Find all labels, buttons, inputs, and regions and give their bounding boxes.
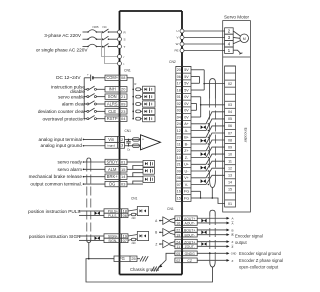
svg-text:FG: FG <box>184 190 189 194</box>
svg-text:01: 01 <box>121 159 125 164</box>
wire tap to terminal r <box>102 32 120 57</box>
svg-text:Servo Motor: Servo Motor <box>224 15 249 20</box>
resistor 220 <box>131 213 136 216</box>
terminal W <box>180 42 184 46</box>
wire AC phase T lead <box>83 46 89 48</box>
optocoupler pulse input <box>137 207 148 216</box>
wire COM+ feed <box>127 78 133 119</box>
wire PULS+ lead <box>79 210 94 212</box>
terminal U <box>180 29 184 33</box>
encoder pin row 4 <box>225 86 236 88</box>
twist crossover <box>95 236 98 240</box>
contactor NC pole S <box>103 36 109 40</box>
svg-text:12: 12 <box>228 167 232 171</box>
wire ingnd to amp <box>125 145 141 147</box>
switch input contact <box>84 110 87 112</box>
connector pin pin ingnd 13 <box>105 142 125 148</box>
svg-text:Z: Z <box>232 259 234 263</box>
svg-text:0V: 0V <box>184 95 189 99</box>
wire motor pin 3 to motor <box>233 36 240 39</box>
connector encoder pin column <box>225 66 236 207</box>
switch input contact <box>84 88 87 90</box>
svg-text:11: 11 <box>176 245 180 249</box>
svg-text:A: A <box>232 222 234 226</box>
motor M1 <box>240 34 249 43</box>
svg-text:CN1: CN1 <box>125 129 132 133</box>
wire encoder output row Z <box>197 259 226 261</box>
wire FG to shield bottom <box>86 259 213 282</box>
svg-text:PE: PE <box>174 49 178 53</box>
connector pin pin FG 25 <box>114 256 137 262</box>
svg-text:V: V <box>176 36 178 40</box>
CN2 pin 22 Z+ <box>176 146 191 148</box>
servo motor enclosure <box>223 21 251 212</box>
svg-text:output: output <box>235 240 247 245</box>
svg-text:10: 10 <box>228 152 232 156</box>
CN2 pin 03 0V <box>176 106 191 108</box>
encoder pin row 10 07 <box>225 128 236 130</box>
wire AC phase S lead <box>83 38 89 40</box>
wire encoder shield drain <box>211 188 213 199</box>
svg-text:220: 220 <box>132 217 137 220</box>
svg-text:COM+: COM+ <box>106 75 119 80</box>
CN2 pin 08 V+ <box>176 173 191 175</box>
CN2 pin 06 5V <box>176 72 191 74</box>
svg-text:04: 04 <box>177 115 181 119</box>
optocoupler input <box>143 108 155 114</box>
connector pin pin SON 21 <box>105 94 127 99</box>
wire NC to terminal S <box>109 38 120 40</box>
svg-text:10: 10 <box>177 156 181 160</box>
wire analog ground <box>83 145 85 147</box>
wire pair CN2 A+/A- to encoder <box>191 112 225 124</box>
svg-text:04: 04 <box>228 110 232 114</box>
svg-text:24: 24 <box>177 122 181 126</box>
connector pin pin COM+ 08 <box>105 75 127 80</box>
svg-text:13: 13 <box>119 143 123 148</box>
encoder pin row 5 <box>225 93 236 95</box>
svg-text:V+: V+ <box>184 176 189 180</box>
wire NC to terminal R <box>109 31 120 33</box>
svg-text:06: 06 <box>177 75 181 79</box>
pin 05 GNDG <box>175 251 197 256</box>
svg-text:PULS+: PULS+ <box>108 209 118 213</box>
encoder pin row 16 13 <box>225 171 236 173</box>
encoder pin row 15 12 <box>225 164 236 166</box>
encoder pin row 19 <box>225 192 236 194</box>
wire GND to chassis <box>160 253 175 266</box>
svg-text:23: 23 <box>177 136 181 140</box>
switch input contact <box>84 96 87 98</box>
svg-text:5V: 5V <box>184 88 189 92</box>
wire pair CN2 V+/V- to encoder <box>191 168 225 178</box>
resistor 220 <box>131 238 136 241</box>
wire PULS- lead <box>79 214 94 216</box>
wire output to optocoupler <box>127 168 143 170</box>
svg-text:ALRS: ALRS <box>107 101 118 106</box>
svg-text:disable: disable <box>70 89 85 94</box>
svg-text:FG: FG <box>119 256 125 261</box>
svg-text:3-phase AC 220V: 3-phase AC 220V <box>44 33 82 38</box>
svg-text:servo ready: servo ready <box>58 160 83 165</box>
connector pin pin ALM 15 <box>105 167 127 172</box>
svg-text:U: U <box>176 29 178 33</box>
wire 5V collector <box>191 69 204 71</box>
connector CN2 table <box>176 66 191 201</box>
wire encoder output row Z <box>197 245 226 247</box>
svg-text:12: 12 <box>177 129 181 133</box>
CN2 pin 04 0V <box>176 113 191 115</box>
CN2 pin 10 Z- <box>176 153 191 155</box>
motor terminal pin 1 <box>225 47 234 53</box>
svg-text:CN1: CN1 <box>124 69 131 73</box>
twist crossover <box>201 219 204 223</box>
encoder pin row 14 11 <box>225 157 236 159</box>
twist crossover <box>95 211 98 215</box>
ground chassis at FG <box>137 258 140 260</box>
wire NFB to NC pole T <box>97 46 103 48</box>
svg-text:09: 09 <box>121 101 125 106</box>
svg-text:14: 14 <box>228 181 232 185</box>
svg-text:GNDG: GNDG <box>185 252 196 256</box>
optocoupler pulse input <box>137 232 148 241</box>
wire output signal <box>83 183 85 185</box>
encoder pin row 18 15 <box>225 185 236 187</box>
encoder pin row 1 <box>225 65 236 67</box>
svg-text:Encoder signal: Encoder signal <box>235 234 263 239</box>
cable shield encoder pair <box>210 79 216 99</box>
wire motor lead W <box>182 43 225 45</box>
svg-text:GND: GND <box>231 253 237 256</box>
svg-text:11: 11 <box>228 159 232 163</box>
svg-text:CN1: CN1 <box>167 207 174 211</box>
terminal r <box>118 55 122 59</box>
svg-text:M: M <box>243 37 246 41</box>
connector pin pin Vin 12 <box>105 136 125 142</box>
ferrite bead lower <box>132 144 139 147</box>
svg-text:B: B <box>155 231 157 235</box>
wire encoder output row A <box>197 222 226 224</box>
contactor NC pole T <box>103 44 109 48</box>
svg-text:PULS-: PULS- <box>108 214 117 218</box>
terminal PE <box>180 49 184 53</box>
wire Vin to amp <box>125 138 141 140</box>
CN2 pin 20 5V <box>176 65 191 67</box>
svg-text:-: - <box>142 145 143 149</box>
encoder pin row 8 05 <box>225 114 236 116</box>
svg-text:ALM: ALM <box>108 167 117 172</box>
wire output signal <box>83 161 85 163</box>
wire drive bottom edge <box>120 274 183 276</box>
svg-text:B+: B+ <box>184 136 189 140</box>
svg-text:FG: FG <box>184 196 189 200</box>
twist crossover <box>201 179 204 183</box>
svg-text:07: 07 <box>123 238 127 243</box>
wire drive right bus <box>181 11 183 275</box>
svg-text:deviation counter clear: deviation counter clear <box>38 109 86 114</box>
svg-text:05: 05 <box>228 117 232 121</box>
wire encoder output row B <box>197 234 226 236</box>
svg-text:CLE: CLE <box>108 109 116 114</box>
svg-text:12: 12 <box>119 137 123 142</box>
svg-text:01: 01 <box>177 95 181 99</box>
svg-text:analog input ground: analog input ground <box>41 143 83 148</box>
svg-text:09: 09 <box>228 145 232 149</box>
wire motor lead U <box>182 30 225 32</box>
CN2 pin 02 0V <box>176 99 191 101</box>
CN2 pin 09 U- <box>176 167 191 169</box>
junction COM+ rail <box>132 96 134 98</box>
wire output to optocoupler <box>127 176 143 178</box>
pin 24 ZOUT+ <box>175 239 197 244</box>
svg-text:alarm clear: alarm clear <box>62 102 86 107</box>
svg-text:BRK+: BRK+ <box>107 174 118 179</box>
wire cable shield drain <box>88 243 90 259</box>
svg-text:25: 25 <box>131 256 135 261</box>
CN2 pin 16 FG <box>176 187 191 189</box>
CN2 pin 23 B+ <box>176 133 191 135</box>
svg-text:+: + <box>142 138 144 142</box>
svg-text:Z+: Z+ <box>184 149 188 153</box>
connector pin pin PULS+ 18 <box>104 209 128 213</box>
optocoupler input <box>143 116 155 122</box>
svg-text:output common terminal.: output common terminal. <box>30 182 82 187</box>
svg-text:16: 16 <box>177 190 181 194</box>
encoder pin row 17 14 <box>225 178 236 180</box>
svg-text:11: 11 <box>177 142 181 146</box>
svg-text:Z: Z <box>232 245 234 249</box>
wire SIGN- lead <box>79 239 94 241</box>
resistor input series <box>136 95 141 98</box>
wire motor pin 2 to motor <box>233 31 240 36</box>
resistor input series <box>136 110 141 113</box>
wire drive left bus <box>119 11 121 275</box>
CN2 pin 18 5V <box>176 86 191 88</box>
breaker NFB pole S <box>88 37 97 39</box>
wire pair CN2 B+/B- to encoder <box>191 126 225 137</box>
svg-text:DG: DG <box>109 181 115 186</box>
optocoupler output 3 <box>143 176 154 183</box>
svg-text:INH: INH <box>109 87 116 92</box>
wire output to optocoupler <box>127 183 143 185</box>
wire encoder output row Z <box>197 241 226 243</box>
svg-text:220: 220 <box>132 242 137 245</box>
svg-text:CN2: CN2 <box>169 60 176 64</box>
svg-text:18: 18 <box>177 88 181 92</box>
CN2 pin 24 A+ <box>176 119 191 121</box>
wire 0V collector <box>191 96 201 98</box>
encoder pin row 6 03 <box>225 100 236 102</box>
CN2 pin 17 5V <box>176 79 191 81</box>
switch input contact <box>84 118 87 120</box>
svg-text:AOUT-: AOUT- <box>185 222 195 226</box>
wire pair CN2 U+/U- to encoder <box>191 154 225 164</box>
CN2 pin 21 U+ <box>176 160 191 162</box>
terminal V <box>180 36 184 40</box>
connector pin pin SRDY 01 <box>105 159 127 164</box>
wire pair CN2 Z+/Z- to encoder <box>191 140 225 151</box>
cable shield output pair <box>210 210 215 216</box>
breaker NFB pole R <box>88 30 97 32</box>
svg-text:servo alarm: servo alarm <box>58 167 83 172</box>
wire 0V to encoder 03 <box>201 104 225 106</box>
svg-text:08: 08 <box>228 138 232 142</box>
pin 11 ZOUT- <box>175 244 197 249</box>
svg-text:0V: 0V <box>184 102 189 106</box>
svg-text:Z: Z <box>232 240 234 244</box>
pin 17 AOUT+ <box>175 216 197 221</box>
wire opto jog 2 <box>133 173 143 177</box>
breaker NFB pole T <box>88 44 97 46</box>
capacitor C input filter <box>128 139 130 141</box>
svg-text:06: 06 <box>123 213 127 218</box>
svg-text:08: 08 <box>121 75 125 80</box>
contactor NC pole R <box>103 29 109 33</box>
twist crossover <box>201 139 204 143</box>
svg-text:SON: SON <box>108 94 117 99</box>
svg-text:Encoder: Encoder <box>244 128 249 144</box>
wire SIGN+ lead <box>79 235 94 237</box>
connector pin pin RSTP 04 <box>105 116 127 121</box>
svg-text:Z: Z <box>155 242 157 246</box>
pin 19 BOUT- <box>175 232 197 237</box>
svg-text:RSTP: RSTP <box>107 116 118 121</box>
terminal R <box>118 30 122 34</box>
connector pin pin CLE 23 <box>105 109 127 114</box>
junction COM+ rail <box>132 118 134 120</box>
svg-text:21: 21 <box>177 163 181 167</box>
wire analog input <box>83 139 85 141</box>
svg-text:15: 15 <box>121 167 125 172</box>
wire pulse- to opto <box>128 239 131 242</box>
svg-text:U+: U+ <box>184 163 189 167</box>
svg-text:T: T <box>124 45 126 49</box>
svg-text:5V: 5V <box>184 75 189 79</box>
connector pin pin PULS- 06 <box>104 213 128 217</box>
pin 22 BOUT+ <box>175 228 197 233</box>
svg-text:S: S <box>124 38 126 42</box>
twist crossover <box>201 166 204 170</box>
svg-text:SIGN+: SIGN+ <box>108 234 118 238</box>
optocoupler input <box>143 86 155 92</box>
svg-text:07: 07 <box>177 183 181 187</box>
svg-text:ZOUT-: ZOUT- <box>185 245 195 249</box>
svg-text:20: 20 <box>177 68 181 72</box>
CN2 pin 11 B- <box>176 140 191 142</box>
svg-text:03: 03 <box>121 181 125 186</box>
connector pin pin SIGN- 07 <box>104 238 128 242</box>
optocoupler input <box>143 94 155 100</box>
svg-text:W: W <box>176 42 179 46</box>
svg-text:BOUT-: BOUT- <box>185 233 195 237</box>
ground motor frame <box>233 50 241 53</box>
svg-text:NFB: NFB <box>93 25 99 29</box>
CN2 pin 01 0V <box>176 92 191 94</box>
svg-text:A+: A+ <box>184 122 189 126</box>
wire motor section divider <box>223 56 251 58</box>
wire output to optocoupler <box>127 161 143 163</box>
svg-text:19: 19 <box>176 233 180 237</box>
svg-text:03: 03 <box>177 109 181 113</box>
svg-text:5V: 5V <box>184 82 189 86</box>
terminal S <box>118 37 122 41</box>
svg-text:B: B <box>232 228 234 232</box>
svg-text:overtravel protection: overtravel protection <box>43 116 86 121</box>
optocoupler output 2 <box>143 168 154 175</box>
wire output signal <box>83 176 85 178</box>
svg-text:06: 06 <box>228 124 232 128</box>
wire encoder output row B <box>197 229 226 231</box>
resistor input series <box>136 88 141 91</box>
svg-text:analog input terminal: analog input terminal <box>38 137 82 142</box>
encoder pin row 2 <box>225 72 236 74</box>
connector pin pin SIGN+ 19 <box>104 234 128 238</box>
connector pin pin BRK+ 14 <box>105 174 127 179</box>
svg-text:position instruction SIGN: position instruction SIGN <box>29 234 81 239</box>
wire pulse+ to opto <box>128 235 137 237</box>
svg-text:Encoder signal ground: Encoder signal ground <box>239 251 282 256</box>
motor terminal pin 4 <box>225 41 234 47</box>
encoder pin row 11 08 <box>225 136 236 138</box>
svg-text:05: 05 <box>176 252 180 256</box>
connector pin pin ALRS 09 <box>105 101 127 106</box>
svg-text:servo enable: servo enable <box>58 94 85 99</box>
svg-text:CZ: CZ <box>187 259 192 263</box>
wire pulse+ to opto <box>128 210 137 212</box>
svg-text:02: 02 <box>228 82 232 86</box>
svg-text:R: R <box>135 82 137 86</box>
svg-text:02: 02 <box>176 259 180 263</box>
twist crossover <box>201 152 204 156</box>
svg-text:17: 17 <box>177 82 181 86</box>
wire pulse- to opto <box>128 214 131 217</box>
encoder pin row 20 01 <box>225 199 236 201</box>
wire motor pin 4 to motor <box>233 41 240 44</box>
wire NFB to NC pole S <box>97 38 103 40</box>
svg-text:13: 13 <box>228 174 232 178</box>
twist crossover <box>201 125 204 129</box>
svg-text:open-collector output: open-collector output <box>239 265 279 270</box>
svg-text:mechanical brake release: mechanical brake release <box>29 174 83 179</box>
svg-text:23: 23 <box>121 109 125 114</box>
svg-text:15: 15 <box>228 188 232 192</box>
svg-text:0V: 0V <box>184 109 189 113</box>
svg-text:Vin: Vin <box>108 137 115 142</box>
svg-text:0V: 0V <box>184 115 189 119</box>
ferrite bead upper <box>132 138 139 141</box>
motor terminal pin 2 <box>225 28 234 34</box>
svg-text:16: 16 <box>176 222 180 226</box>
svg-text:15: 15 <box>177 196 181 200</box>
encoder pin row 12 09 <box>225 143 236 145</box>
wire NFB to NC pole R <box>97 31 103 33</box>
wire motor lead V <box>182 37 225 39</box>
wire encoder output row A <box>197 217 226 219</box>
wire encoder output row GND <box>197 252 226 254</box>
svg-text:01: 01 <box>228 202 232 206</box>
junction COM+ rail <box>132 89 134 91</box>
optocoupler output 1 <box>143 160 154 167</box>
svg-text:ingnd: ingnd <box>107 144 115 148</box>
wire NC to terminal T <box>109 46 120 48</box>
wire output signal <box>83 169 85 171</box>
svg-text:+: + <box>87 73 89 77</box>
wire drive top edge <box>120 10 183 12</box>
wire motor lead PE <box>182 50 225 52</box>
battery DC supply <box>84 77 90 79</box>
wire AC phase R lead <box>83 31 89 33</box>
twist crossover <box>201 242 204 246</box>
